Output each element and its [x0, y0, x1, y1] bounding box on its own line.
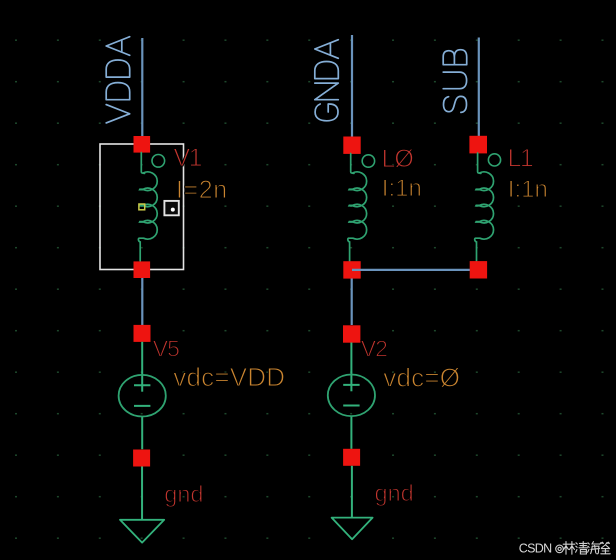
- inductor L0 coil: [348, 154, 367, 262]
- svg-text:I=2n: I=2n: [176, 176, 228, 204]
- pin L0 bottom: [343, 261, 360, 278]
- watermark @: [556, 545, 564, 553]
- svg-text:V1: V1: [174, 144, 202, 172]
- pin V1 bottom: [134, 261, 151, 278]
- svg-text:vdc=Ø: vdc=Ø: [383, 363, 460, 393]
- svg-text:V2: V2: [361, 335, 387, 361]
- inductor L1 terminal circle: [488, 154, 500, 166]
- pin L0 top: [343, 137, 360, 154]
- svg-text:I:1n: I:1n: [508, 176, 548, 203]
- wire VDDA net: [141, 38, 143, 144]
- voltage source V2: [328, 343, 375, 449]
- svg-text:V5: V5: [153, 335, 179, 361]
- svg-text:vdc=VDD: vdc=VDD: [173, 362, 285, 392]
- pin V2 plus: [343, 325, 360, 342]
- pin V1 top: [134, 136, 151, 153]
- svg-text:LØ: LØ: [382, 145, 414, 173]
- selection box around V1: [100, 144, 184, 270]
- wire V2 to gnd: [351, 466, 353, 518]
- wire L0 to V2: [351, 279, 353, 326]
- wire SUB net: [478, 38, 480, 145]
- svg-text:gnd: gnd: [164, 481, 203, 507]
- pin L1 bottom: [470, 261, 487, 278]
- net label SUB: [443, 50, 467, 113]
- svg-text:CSDN: CSDN: [519, 541, 552, 555]
- wire GNDA net: [351, 35, 353, 145]
- watermark hanzi Hai: [588, 542, 600, 554]
- property box with dot: [164, 201, 178, 215]
- pin V2 minus: [343, 449, 360, 466]
- svg-text:I:1n: I:1n: [382, 175, 422, 202]
- net label VDDA: [106, 37, 130, 123]
- pin V5 minus: [133, 450, 150, 467]
- wire V1 to V5: [141, 278, 143, 326]
- net label GNDA: [315, 40, 339, 121]
- inductor V1 coil: [138, 153, 157, 262]
- inductor V1 terminal circle: [152, 155, 165, 168]
- ground symbol middle: [332, 518, 373, 540]
- watermark hanzi Lin: [563, 542, 575, 555]
- watermark hanzi Quan: [600, 542, 610, 554]
- watermark hanzi Qing: [576, 542, 588, 554]
- svg-text:gnd: gnd: [375, 480, 414, 506]
- svg-text:L1: L1: [508, 144, 533, 172]
- pin V5 plus: [134, 325, 151, 342]
- inductor L1 coil: [475, 153, 494, 261]
- wire L0 to L1 (bottom rail): [352, 269, 478, 271]
- ground symbol left: [120, 520, 164, 543]
- voltage source V5: [119, 342, 166, 449]
- wire V5 to gnd: [141, 467, 143, 520]
- inductor L0 terminal circle: [362, 155, 374, 167]
- pin L1 top: [469, 136, 487, 154]
- origin marker (yellow): [139, 204, 145, 210]
